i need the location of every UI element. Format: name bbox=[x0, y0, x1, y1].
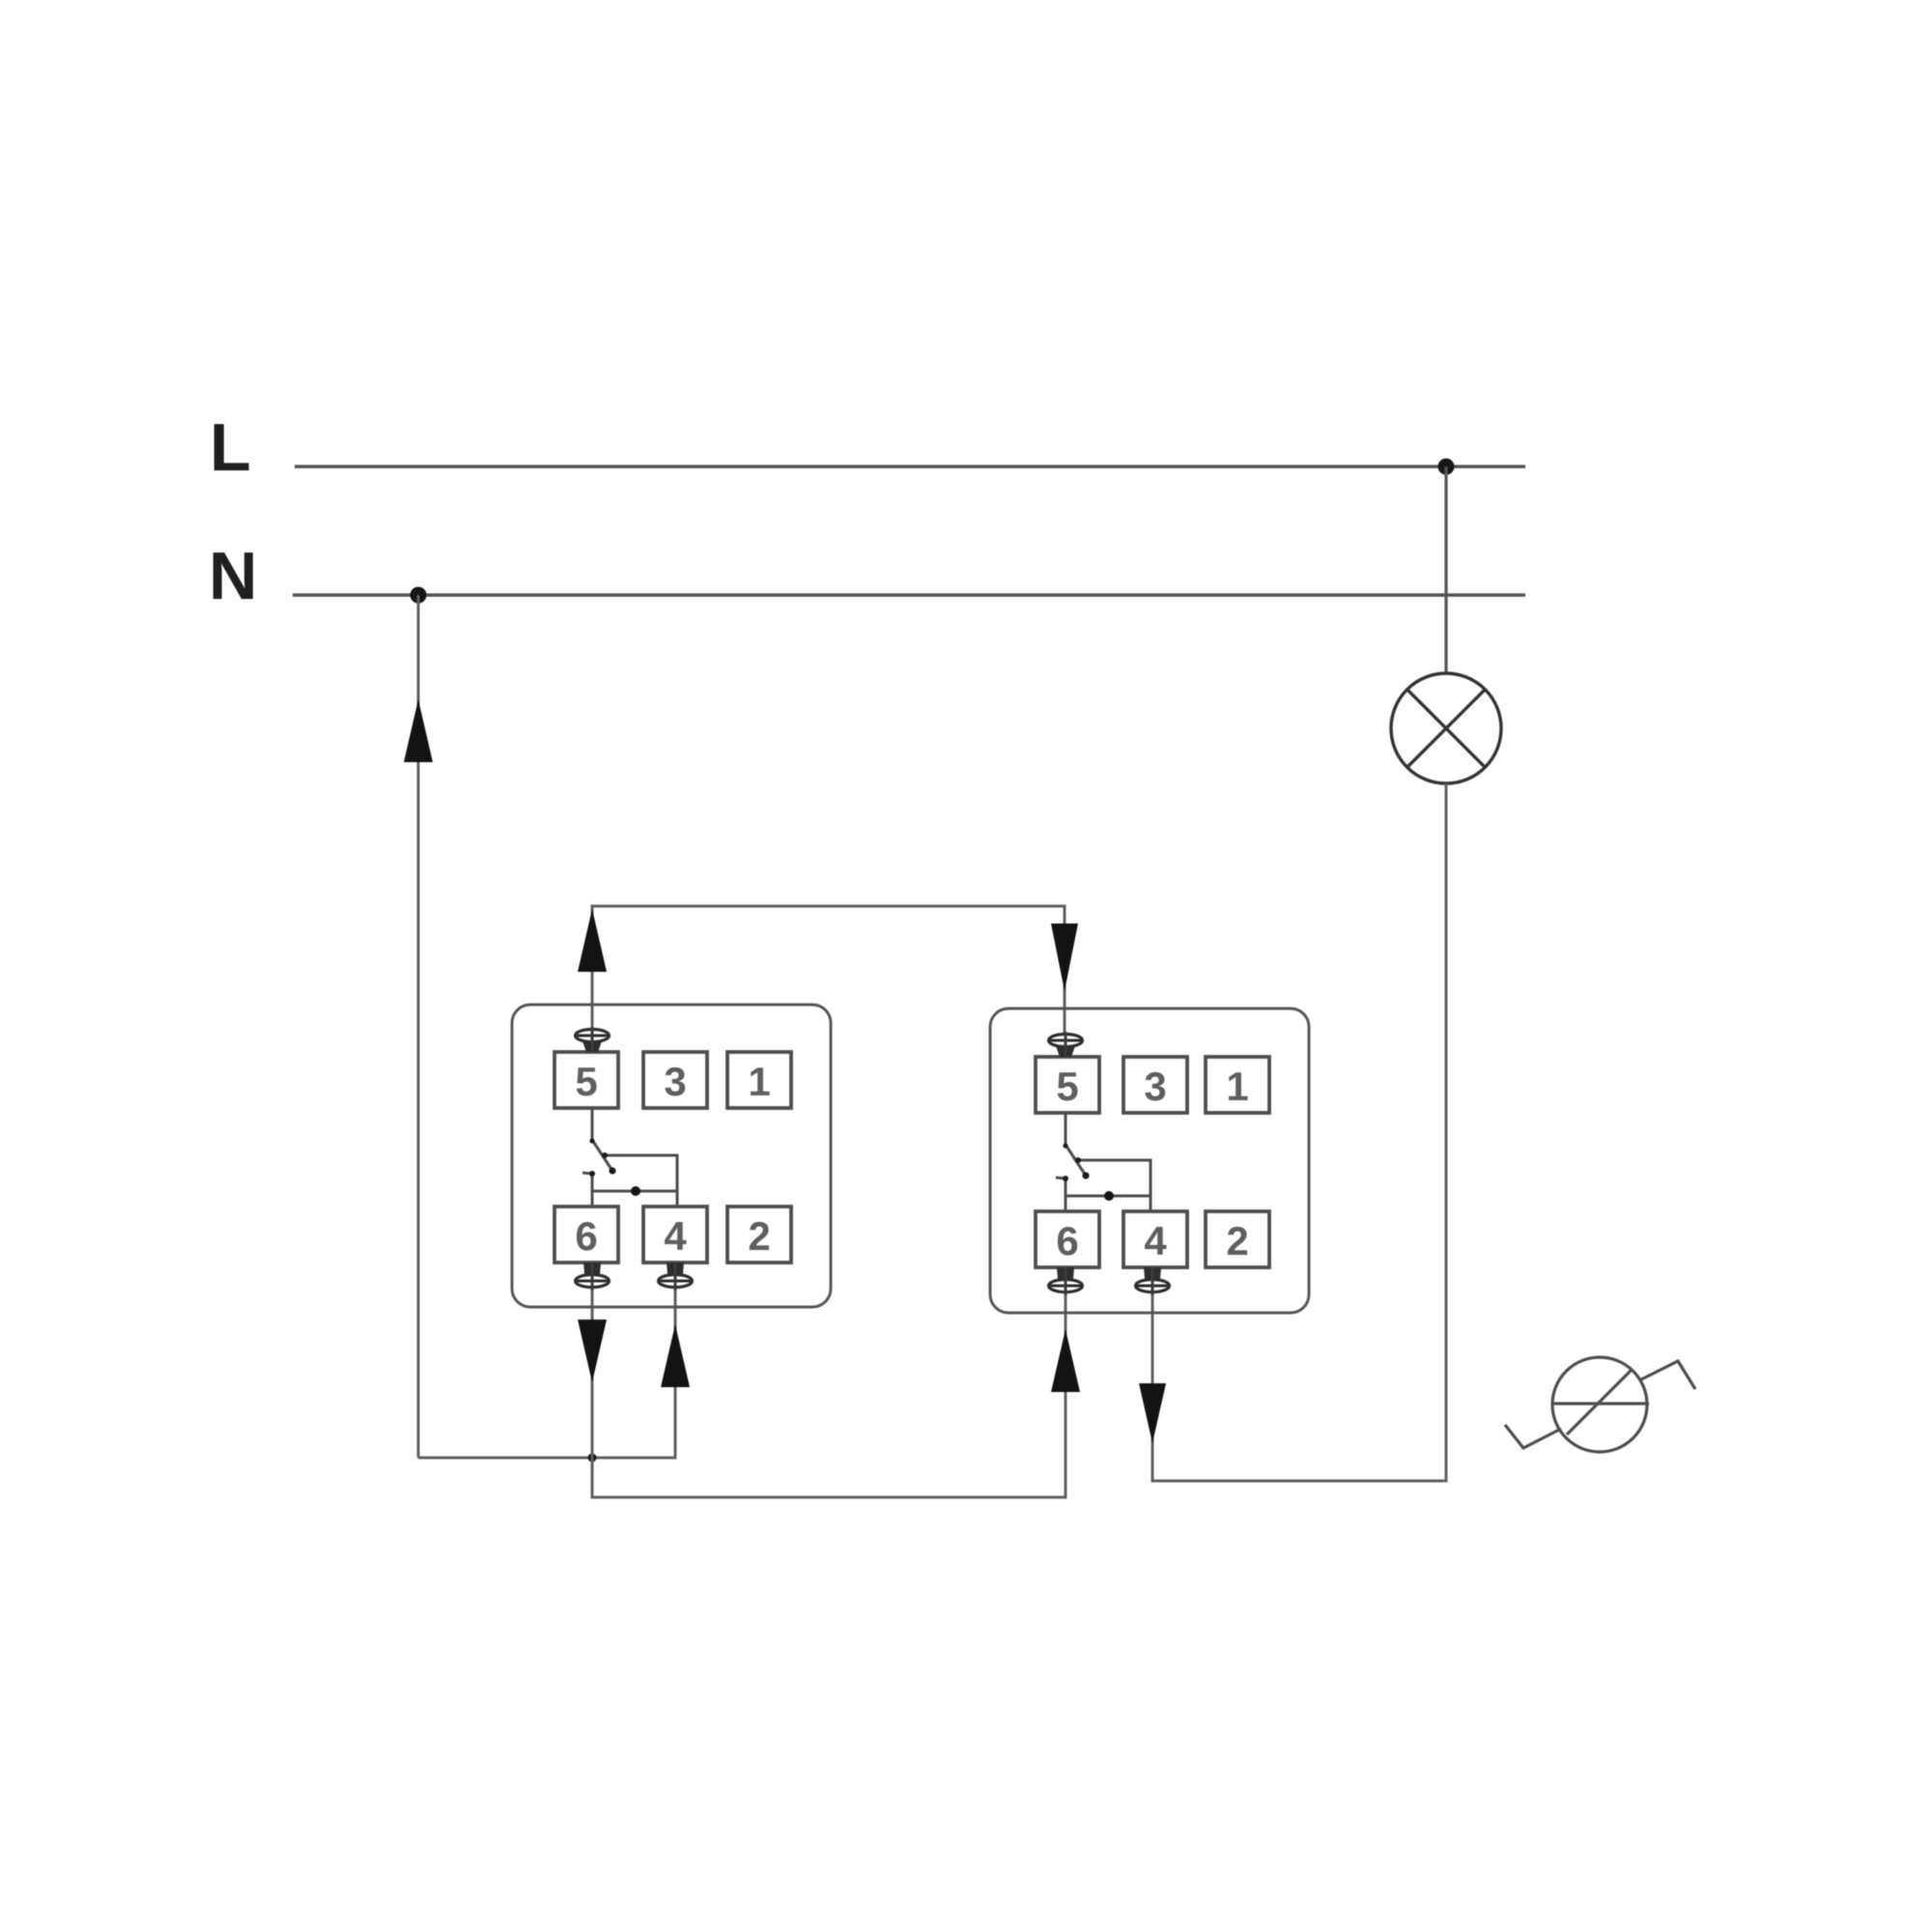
wire N bus bbox=[293, 593, 1525, 597]
svg-text:4: 4 bbox=[1144, 1218, 1167, 1264]
wire left terminal 6 to right terminal 6 bbox=[592, 1263, 1065, 1497]
arrow up on N drop bbox=[404, 699, 433, 762]
S2 terminal 4 bbox=[1123, 1211, 1187, 1267]
S1 terminal 1 bbox=[727, 1052, 791, 1108]
S1 switch mechanism bbox=[582, 1108, 677, 1207]
arrow up into left switch terminal 4 bbox=[661, 1324, 690, 1387]
wire top interconnect terminal 5 to terminal 5 bbox=[592, 906, 1065, 1057]
svg-text:1: 1 bbox=[748, 1059, 770, 1104]
arrow down out of left switch terminal 6 bbox=[578, 1320, 607, 1382]
svg-text:N: N bbox=[209, 538, 258, 613]
S1 terminal 2 bbox=[727, 1207, 791, 1263]
S1 terminal 4 bbox=[643, 1207, 707, 1263]
arrow up into right switch terminal 6 bbox=[1051, 1329, 1080, 1392]
S2 mechanism contact dots bbox=[1082, 1172, 1089, 1179]
S2 terminal 6 bbox=[1036, 1211, 1099, 1267]
arrow down out of right switch terminal 4 bbox=[1139, 1383, 1166, 1443]
svg-text:5: 5 bbox=[575, 1059, 597, 1104]
wire L bus bbox=[295, 465, 1525, 469]
S2 switch mechanism bbox=[1056, 1113, 1151, 1211]
S2 screw terminal 5 bbox=[1049, 1032, 1083, 1057]
svg-text:2: 2 bbox=[748, 1213, 770, 1259]
S2 terminal 1 bbox=[1206, 1057, 1269, 1113]
S1 screw terminal 5 bbox=[576, 1027, 610, 1052]
S2 screw terminal 6 bbox=[1049, 1267, 1083, 1295]
svg-text:1: 1 bbox=[1226, 1064, 1248, 1109]
S2 screw terminal 4 bbox=[1136, 1267, 1170, 1295]
svg-text:L: L bbox=[210, 410, 251, 485]
svg-text:4: 4 bbox=[664, 1213, 687, 1259]
arrow up out of left switch terminal 5 bbox=[578, 909, 607, 972]
S1 terminal 6 bbox=[554, 1207, 618, 1263]
node N junction bbox=[411, 587, 427, 604]
lamp E1 bbox=[1391, 673, 1501, 783]
S2 terminal 2 bbox=[1206, 1211, 1269, 1267]
S1 terminal 5 bbox=[554, 1052, 618, 1108]
svg-text:3: 3 bbox=[664, 1059, 686, 1104]
S1 screw terminal 4 bbox=[659, 1263, 693, 1291]
node L junction bbox=[1438, 459, 1455, 475]
S2 mechanism junction dot bbox=[1104, 1191, 1114, 1201]
node junction left terminal 6 wire bbox=[588, 1454, 597, 1463]
switch box S2 outline bbox=[990, 1009, 1309, 1313]
S1 screw terminal 6 bbox=[576, 1263, 610, 1291]
wire right terminal 4 to lamp bbox=[1152, 783, 1446, 1481]
wire bottom link to left switch terminal 4 bbox=[418, 1263, 675, 1458]
svg-text:2: 2 bbox=[1226, 1218, 1248, 1264]
arrow down into right switch terminal 5 bbox=[1051, 923, 1078, 991]
S2 terminal 3 bbox=[1123, 1057, 1187, 1113]
svg-text:6: 6 bbox=[575, 1213, 597, 1259]
svg-text:6: 6 bbox=[1056, 1218, 1078, 1264]
wire N drop bbox=[417, 595, 420, 1458]
wire L drop to lamp bbox=[1444, 467, 1447, 674]
switch box S1 outline bbox=[512, 1005, 831, 1307]
S1 terminal 3 bbox=[643, 1052, 707, 1108]
svg-text:3: 3 bbox=[1144, 1064, 1166, 1109]
S2 terminal 5 bbox=[1036, 1057, 1099, 1113]
dimmer symbol bbox=[1505, 1357, 1695, 1452]
svg-text:5: 5 bbox=[1056, 1064, 1078, 1109]
S1 mechanism junction dot bbox=[631, 1186, 640, 1196]
S1 mechanism contact dots bbox=[609, 1167, 615, 1174]
